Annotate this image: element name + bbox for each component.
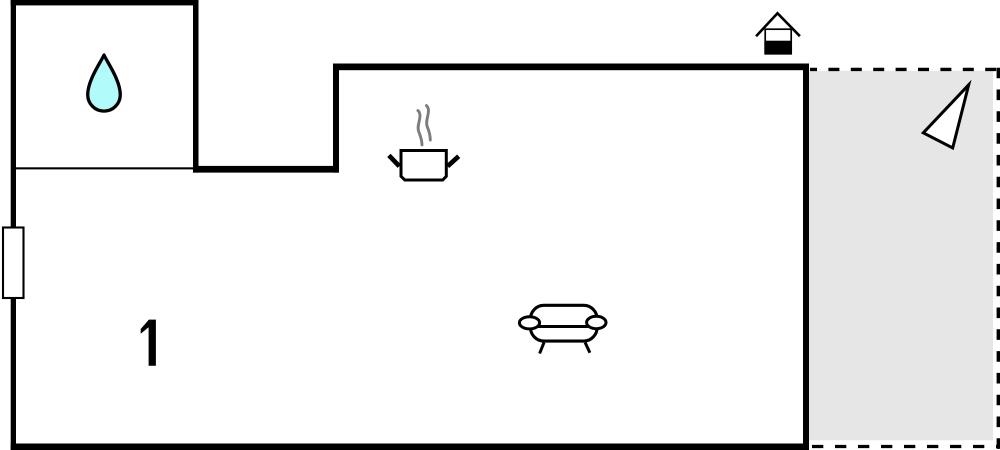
- wall: bathroom right: [193, 0, 199, 173]
- terrace dashed right border: [997, 68, 1000, 450]
- wall: main right: [803, 64, 809, 450]
- wall: main top: [333, 64, 809, 71]
- terrace gray area: [809, 71, 993, 441]
- pot right handle: [448, 156, 459, 166]
- house icon lower black band: [764, 41, 792, 54]
- sofa body (living room): [530, 305, 597, 341]
- sofa right armrest: [587, 316, 606, 328]
- wall: main bottom: [11, 444, 809, 450]
- window on left wall: [3, 228, 24, 299]
- pot body (kitchen): [401, 151, 446, 181]
- pot left handle: [389, 155, 399, 166]
- wall: kitchen lower horizontal: [193, 166, 339, 173]
- steam wave left (kitchen pot): [418, 111, 422, 145]
- terrace dashed bottom border: [811, 445, 1000, 448]
- terrace dashed top border: [810, 68, 1000, 71]
- sofa left armrest: [519, 317, 539, 329]
- water drop icon (bathroom): [88, 55, 121, 111]
- sofa left leg: [540, 343, 544, 354]
- wall: kitchen step vertical: [333, 64, 339, 173]
- wall: left exterior: [11, 0, 16, 450]
- room label 1: [141, 320, 156, 366]
- house icon body: [765, 29, 791, 54]
- north arrow (terrace): [923, 85, 968, 148]
- wall: bathroom bottom thin partition: [16, 167, 193, 169]
- house icon roof: [756, 13, 800, 36]
- sofa seat line: [530, 325, 598, 328]
- steam wave right (kitchen pot): [426, 106, 430, 140]
- sofa right leg: [585, 343, 590, 353]
- wall: bathroom top: [11, 0, 199, 5]
